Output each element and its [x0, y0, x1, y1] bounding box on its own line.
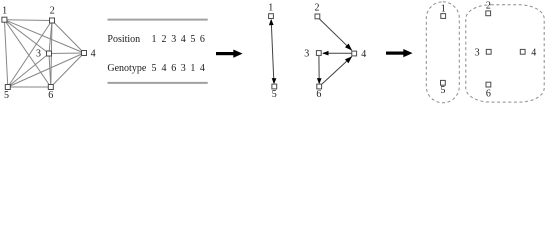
svg-text:3: 3 [36, 49, 41, 60]
wire edge 1-2 [4, 19, 52, 22]
wire edge 3-5 [8, 54, 49, 88]
node 6 (middle graph) [316, 84, 321, 100]
svg-text:1: 1 [2, 6, 7, 17]
node 3 (middle graph) [304, 49, 321, 60]
svg-text:6: 6 [316, 89, 321, 100]
svg-text:4: 4 [181, 34, 186, 45]
node 4 (right group) [520, 48, 536, 59]
node 6 (left graph) [48, 85, 53, 101]
svg-text:6: 6 [486, 88, 491, 99]
svg-text:4: 4 [361, 49, 366, 60]
svg-text:6: 6 [48, 90, 53, 101]
arrowhead into node 6 [317, 78, 322, 84]
svg-text:2: 2 [486, 0, 491, 11]
wire edge 6-4 [322, 57, 352, 85]
svg-text:5: 5 [190, 34, 195, 45]
svg-text:5: 5 [4, 90, 9, 101]
wire edge 1-4 [4, 20, 84, 53]
svg-text:3: 3 [181, 63, 186, 74]
svg-text:1: 1 [152, 34, 157, 45]
node 1 (middle graph) [268, 2, 273, 18]
big arrow 2 [386, 49, 413, 57]
svg-text:2: 2 [50, 6, 55, 17]
node 3 (left graph) [36, 49, 52, 60]
table top rule [108, 19, 208, 21]
node 6 (right group) [486, 82, 491, 99]
svg-text:2: 2 [315, 2, 320, 13]
arrowhead into node 3 [322, 51, 328, 56]
wire edge 2-5 [8, 21, 52, 88]
big arrow 1 [216, 50, 243, 58]
arrowhead into node 1 [269, 19, 274, 25]
node 2 (left graph) [50, 6, 55, 23]
node 3 (right group) [475, 48, 491, 59]
dashed group 2 (cluster containing nodes 2 3 4 6) [466, 5, 544, 102]
wire edge 2-4 [320, 19, 352, 50]
svg-text:Position: Position [107, 34, 140, 45]
node 1 (left graph) [2, 6, 7, 23]
node 4 (middle graph) [352, 49, 367, 60]
wire edge 2-4 [52, 21, 84, 54]
svg-text:5: 5 [272, 89, 277, 100]
wire edge 1-3 [4, 20, 49, 54]
node 4 (left graph) [82, 49, 96, 60]
wire edge 4-3 [323, 52, 352, 54]
svg-text:3: 3 [475, 48, 480, 59]
wire edge 2-3 [49, 21, 52, 54]
arrowhead into node 5 [272, 78, 277, 84]
node 2 (right group) [486, 0, 491, 15]
svg-text:Genotype: Genotype [107, 63, 146, 74]
svg-text:3: 3 [304, 49, 309, 60]
svg-text:4: 4 [162, 63, 167, 74]
wire edge 3-4 [49, 52, 84, 55]
wire edge 4-6 [51, 53, 84, 87]
wire edge 1-5 double arrow [271, 20, 274, 83]
table row Position values 1 2 3 4 5 6 [152, 34, 205, 45]
wire edge 3-6 [318, 56, 320, 83]
wire edge 1-5 [4, 20, 7, 87]
wire edge 1-6 [4, 20, 50, 87]
node 5 (middle graph) [272, 84, 277, 100]
svg-text:6: 6 [171, 63, 176, 74]
node 1 (right group) [441, 3, 446, 18]
svg-text:4: 4 [91, 49, 96, 60]
svg-text:1: 1 [441, 3, 446, 14]
svg-text:3: 3 [171, 34, 176, 45]
svg-text:4: 4 [531, 48, 536, 59]
table bottom rule [108, 82, 208, 84]
node 5 (left graph) [4, 85, 10, 101]
wire edge 3-6 [49, 54, 51, 88]
node 5 (right group) [440, 80, 445, 96]
wire edge 4-5 [8, 53, 84, 87]
svg-text:1: 1 [190, 63, 195, 74]
arrowhead into node 4 from node 6 [345, 56, 352, 63]
svg-text:1: 1 [268, 2, 273, 13]
svg-text:2: 2 [162, 34, 167, 45]
left complete graph edges [4, 20, 84, 87]
svg-text:4: 4 [200, 63, 205, 74]
wire edge 5-6 [8, 86, 51, 88]
table row Genotype values 5 4 6 3 1 4 [152, 63, 205, 74]
dashed group 1 (cluster containing nodes 1 and 5) [426, 2, 459, 103]
svg-text:6: 6 [200, 34, 205, 45]
svg-text:5: 5 [440, 85, 445, 96]
wire edge 2-6 [51, 21, 52, 88]
arrowhead into node 4 from node 2 [345, 44, 352, 51]
node 2 (middle graph) [315, 2, 320, 18]
svg-text:5: 5 [152, 63, 157, 74]
